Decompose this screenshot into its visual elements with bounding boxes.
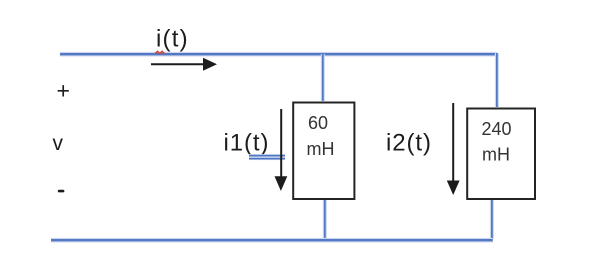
svg-text:240: 240 (482, 119, 512, 139)
svg-text:i2(t): i2(t) (386, 130, 432, 157)
wire: vertical from top bus to 60mH top (321, 54, 325, 101)
wire: 240mH bottom lead to bottom bus (490, 200, 494, 239)
spellcheck squiggle under i(t) (155, 51, 164, 53)
wire: bottom horizontal bus (51, 238, 493, 243)
wire: top horizontal bus i(t) (60, 52, 497, 57)
svg-text:mH: mH (482, 145, 510, 165)
current arrow i(t) (top, pointing right) (151, 58, 217, 71)
svg-text:i1(t): i1(t) (224, 130, 270, 157)
svg-text:v: v (53, 132, 64, 155)
wire: 60mH bottom lead to bottom bus (323, 200, 327, 240)
inductor L1 box 60 mH (293, 103, 354, 200)
wire: right vertical from top bus to 240mH top (495, 53, 499, 107)
double blue underline under i1(t) (249, 156, 285, 159)
svg-text:mH: mH (307, 139, 335, 159)
current arrow i2(t) (pointing down) (447, 103, 460, 195)
inductor L2 box 240 mH (467, 109, 535, 200)
label - (source polarity) (58, 190, 65, 193)
current arrow i1(t) (pointing down) (275, 109, 288, 191)
svg-text:+: + (57, 78, 70, 104)
svg-text:60: 60 (308, 113, 328, 133)
svg-text:i(t): i(t) (156, 26, 189, 53)
